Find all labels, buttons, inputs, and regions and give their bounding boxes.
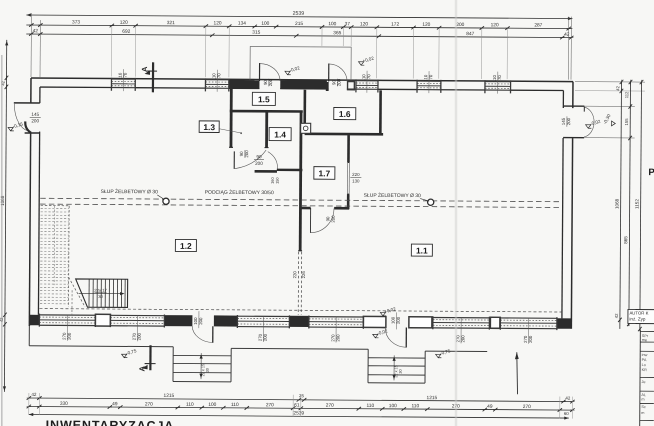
svg-text:220: 220 <box>292 271 297 279</box>
room label 1.3 <box>199 121 219 133</box>
outer wall: right <box>572 82 574 108</box>
svg-text:226: 226 <box>301 271 306 279</box>
svg-text:m: m <box>641 398 644 402</box>
svg-text:145: 145 <box>31 112 39 117</box>
svg-text:100: 100 <box>389 403 397 409</box>
entrance door D-T1 90/200 <box>258 63 260 81</box>
room label 1.4 <box>269 128 291 141</box>
window 270/200 B2 <box>110 314 164 316</box>
svg-text:61: 61 <box>294 402 300 408</box>
svg-text:+0,02: +0,02 <box>362 56 375 64</box>
svg-text:m: m <box>641 411 644 415</box>
svg-text:200: 200 <box>67 332 72 340</box>
svg-text:1068: 1068 <box>614 198 619 209</box>
svg-text:200: 200 <box>396 316 401 324</box>
top wall filled piers at entrance <box>229 80 260 89</box>
room 1.4 door: thick leaf bar + arc <box>255 170 277 173</box>
window 270/200 B3 <box>237 315 289 317</box>
room label 1.1 <box>411 244 432 256</box>
room 1.7 south wall <box>300 207 310 210</box>
svg-text:270: 270 <box>266 402 274 408</box>
scan artifact: left paper edge <box>1 55 3 426</box>
beam axis dashed line 2 <box>40 204 562 207</box>
window 110/70 T1 <box>111 78 135 80</box>
svg-text:321: 321 <box>167 20 175 26</box>
outer wall: top <box>31 78 573 82</box>
pavement edge right of stairs <box>425 350 487 352</box>
window 110/70 T5 <box>485 81 511 83</box>
exterior stair right <box>367 349 369 382</box>
svg-text:-0,15: -0,15 <box>12 121 24 129</box>
right wall door 145/200 <box>563 105 584 107</box>
svg-text:60: 60 <box>564 411 569 416</box>
svg-text:42: 42 <box>31 392 37 397</box>
svg-text:1215: 1215 <box>427 395 438 401</box>
door 1.7 (90/200) arc <box>309 208 311 233</box>
room label 1.7 <box>314 167 335 180</box>
room 1.7 east wall upper <box>347 135 350 162</box>
level +0,02 inside door2 <box>380 312 386 315</box>
level -0,75 right <box>436 354 442 357</box>
right extension lines <box>575 81 645 83</box>
bottom door 1 (100/200) <box>212 326 214 342</box>
svg-text:100: 100 <box>208 402 216 408</box>
bottom extension lines <box>28 393 30 415</box>
entrance door D-T2 90/200 <box>328 63 330 81</box>
svg-text:90: 90 <box>256 154 262 159</box>
svg-text:A: A <box>140 66 149 72</box>
window 110/70 T4 <box>417 80 441 82</box>
partition wall W1 (west of corridor 1.3) <box>230 88 233 147</box>
bottom dimension line 3 (total 2539) <box>29 414 569 418</box>
svg-text:1.3: 1.3 <box>203 122 215 132</box>
svg-text:365: 365 <box>333 30 341 36</box>
svg-text:134: 134 <box>238 21 246 27</box>
outer wall: left <box>30 78 32 103</box>
room 1.7 east wall lower <box>347 194 350 209</box>
svg-text:AUTOR K: AUTOR K <box>629 310 648 315</box>
svg-text:37: 37 <box>345 21 351 27</box>
svg-text:-0,02: -0,02 <box>289 65 301 73</box>
outer wall: bottom solid segments <box>29 315 39 325</box>
room label 1.5 <box>252 92 275 105</box>
svg-text:112: 112 <box>624 91 629 98</box>
svg-text:120: 120 <box>422 22 430 28</box>
svg-text:1.7: 1.7 <box>319 168 331 178</box>
svg-text:1.2: 1.2 <box>180 241 192 251</box>
partition wall W2 (west of room 1.4) <box>265 112 268 148</box>
svg-text:120: 120 <box>360 21 368 27</box>
svg-text:1.5: 1.5 <box>258 94 270 104</box>
svg-text:70: 70 <box>366 74 371 79</box>
svg-text:42: 42 <box>615 85 620 90</box>
dashed upper stair flight <box>41 205 69 207</box>
svg-text:SŁUP ŻELBETOWY Ø 30: SŁUP ŻELBETOWY Ø 30 <box>101 188 159 195</box>
beam axis dashed line 1 <box>40 198 562 201</box>
opening 220/130 in 1.7 east wall <box>347 161 349 163</box>
level +0,02 outside porch <box>358 62 364 65</box>
svg-text:692: 692 <box>122 29 130 35</box>
svg-text:270: 270 <box>523 404 531 410</box>
svg-text:mę: mę <box>642 338 647 342</box>
svg-text:KR: KR <box>642 368 648 372</box>
svg-text:200: 200 <box>198 317 203 325</box>
svg-text:-0,30: -0,30 <box>602 113 612 125</box>
bottom dimension line 2 <box>29 406 573 410</box>
svg-text:865: 865 <box>623 236 628 244</box>
top extension lines <box>30 13 32 77</box>
window 270/200 B6 <box>500 317 556 319</box>
dashed diagonal of stair <box>68 277 85 307</box>
window 270/200 B5 <box>433 316 489 318</box>
leader line from 1.3 to corridor <box>219 129 241 133</box>
level -0,02 outside door2 <box>373 334 379 337</box>
svg-text:120: 120 <box>214 20 222 26</box>
svg-text:PO: PO <box>648 167 654 178</box>
right chain B (112/155/865) <box>629 82 631 326</box>
room 1.6 west wall <box>303 90 306 133</box>
svg-text:inw: inw <box>642 353 648 357</box>
top dimension line 1 (total 2539) <box>26 15 572 19</box>
svg-text:200: 200 <box>528 335 533 343</box>
left vertical dimension chain (42/1068/42) <box>4 40 6 392</box>
svg-text:22x 17: 22x 17 <box>94 288 107 293</box>
svg-text:Lo: Lo <box>642 363 646 367</box>
top dimension line 3 <box>26 34 572 38</box>
svg-text:70: 70 <box>497 75 502 80</box>
electrical box with circle at 1.6 SW corner <box>301 123 311 133</box>
svg-text:Sc: Sc <box>641 405 646 409</box>
svg-text:70: 70 <box>123 72 128 77</box>
top dimension line 2 (segment chain) <box>26 25 572 29</box>
level -0,75 left <box>122 354 128 357</box>
room 1.6 south wall <box>305 133 383 136</box>
svg-text:-0,75: -0,75 <box>126 348 138 356</box>
section mark A bottom <box>149 345 151 370</box>
svg-text:42: 42 <box>565 396 570 401</box>
window 110/70 T3 <box>356 80 378 82</box>
svg-text:200: 200 <box>137 333 142 341</box>
scan artifact: faint vertical streak <box>455 0 458 426</box>
room label 1.6 <box>334 108 356 120</box>
svg-text:110: 110 <box>411 403 419 409</box>
svg-text:INWENTARYZACJA: INWENTARYZACJA <box>46 418 175 426</box>
room 1.4 south wall <box>277 169 302 172</box>
entrance porch outline <box>250 46 351 80</box>
room 1.5 south wall <box>230 110 303 113</box>
svg-text:200: 200 <box>335 334 340 342</box>
svg-text:315: 315 <box>252 30 260 36</box>
window 270/200 B1 <box>39 314 95 316</box>
section mark A top <box>152 62 154 92</box>
svg-text:1.4: 1.4 <box>274 130 286 140</box>
svg-text:847: 847 <box>466 31 474 37</box>
svg-text:+0,02: +0,02 <box>384 306 397 314</box>
svg-text:-0,02: -0,02 <box>590 119 602 127</box>
right chain A (42/1068/42) <box>620 82 622 329</box>
svg-text:49: 49 <box>487 404 493 410</box>
svg-text:100: 100 <box>261 21 269 27</box>
svg-text:172: 172 <box>391 22 399 28</box>
window 270/200 B4 <box>309 316 363 318</box>
svg-text:200: 200 <box>263 333 268 341</box>
title block table right edge <box>639 330 642 426</box>
left wall door 145/200 <box>14 102 40 104</box>
right chain C (1152) <box>640 82 642 331</box>
svg-text:1152: 1152 <box>634 199 639 209</box>
svg-text:120: 120 <box>491 22 499 28</box>
svg-text:inż. Zyp: inż. Zyp <box>629 316 646 321</box>
svg-text:1.1: 1.1 <box>416 245 428 255</box>
svg-text:1215: 1215 <box>164 393 175 399</box>
svg-text:30: 30 <box>98 294 103 299</box>
central wall dashed continuation (opening 220) <box>297 252 299 315</box>
svg-text:PODCIĄG ŻELBETOWY 30/50: PODCIĄG ŻELBETOWY 30/50 <box>205 189 274 196</box>
level -0,02 porch <box>285 71 291 74</box>
svg-text:150: 150 <box>275 177 280 184</box>
column circle left (slup zelbetowy) <box>163 198 169 204</box>
room label 1.2 <box>175 239 196 251</box>
bottom door 2 (100/200) <box>405 327 407 347</box>
svg-text:25: 25 <box>299 393 304 398</box>
svg-text:AL: AL <box>641 393 646 397</box>
svg-text:Je: Je <box>641 380 645 384</box>
svg-text:287: 287 <box>534 23 542 29</box>
AUTOR box <box>628 309 654 323</box>
svg-text:-0,75: -0,75 <box>440 348 452 356</box>
svg-text:215: 215 <box>295 21 303 27</box>
svg-text:270: 270 <box>326 403 334 409</box>
svg-text:30: 30 <box>206 368 210 372</box>
window 110/70 T2 <box>205 79 228 81</box>
svg-text:100: 100 <box>328 21 336 27</box>
svg-text:30: 30 <box>399 369 403 373</box>
corridor 1.3 door: leaf + arc <box>233 151 235 168</box>
dashed lintel line above bottom wall <box>39 309 561 312</box>
svg-text:200: 200 <box>31 118 39 123</box>
svg-text:200: 200 <box>456 22 464 28</box>
north arrow <box>517 352 518 394</box>
central spine wall (1.7 west) <box>299 111 303 250</box>
svg-text:42: 42 <box>614 313 619 318</box>
terrace/pavement edge left <box>28 326 30 346</box>
svg-text:1.6: 1.6 <box>339 109 351 119</box>
level -0,02 right entry <box>586 125 592 128</box>
svg-text:200: 200 <box>460 335 465 343</box>
svg-text:110: 110 <box>231 402 239 408</box>
svg-text:373: 373 <box>72 19 80 25</box>
svg-text:70: 70 <box>216 73 221 78</box>
svg-text:155: 155 <box>624 118 629 126</box>
svg-text:330: 330 <box>60 401 68 407</box>
svg-text:130: 130 <box>352 179 360 184</box>
svg-text:110: 110 <box>186 402 194 408</box>
svg-text:120: 120 <box>120 20 128 26</box>
interior staircase 22x17 <box>75 279 127 308</box>
svg-text:270: 270 <box>145 401 153 407</box>
level -0,15 left entry <box>8 127 14 130</box>
svg-text:220: 220 <box>352 172 360 177</box>
bottom dimension line 1 <box>29 398 573 402</box>
svg-text:SŁUP ŻELBETOWY Ø 30: SŁUP ŻELBETOWY Ø 30 <box>364 192 422 199</box>
exterior stair left <box>172 347 174 382</box>
room 1.6 east wall <box>379 90 382 133</box>
column circle right <box>428 199 434 205</box>
svg-text:PA: PA <box>642 358 647 362</box>
svg-text:110: 110 <box>366 403 374 409</box>
svg-text:42: 42 <box>33 28 39 34</box>
svg-text:200: 200 <box>255 161 263 166</box>
svg-text:70: 70 <box>428 74 433 79</box>
svg-text:49: 49 <box>112 401 118 407</box>
terrace edge between stairs <box>231 347 368 350</box>
svg-text:2539: 2539 <box>293 410 304 416</box>
svg-text:200: 200 <box>331 215 336 223</box>
svg-text:2539: 2539 <box>293 11 305 17</box>
